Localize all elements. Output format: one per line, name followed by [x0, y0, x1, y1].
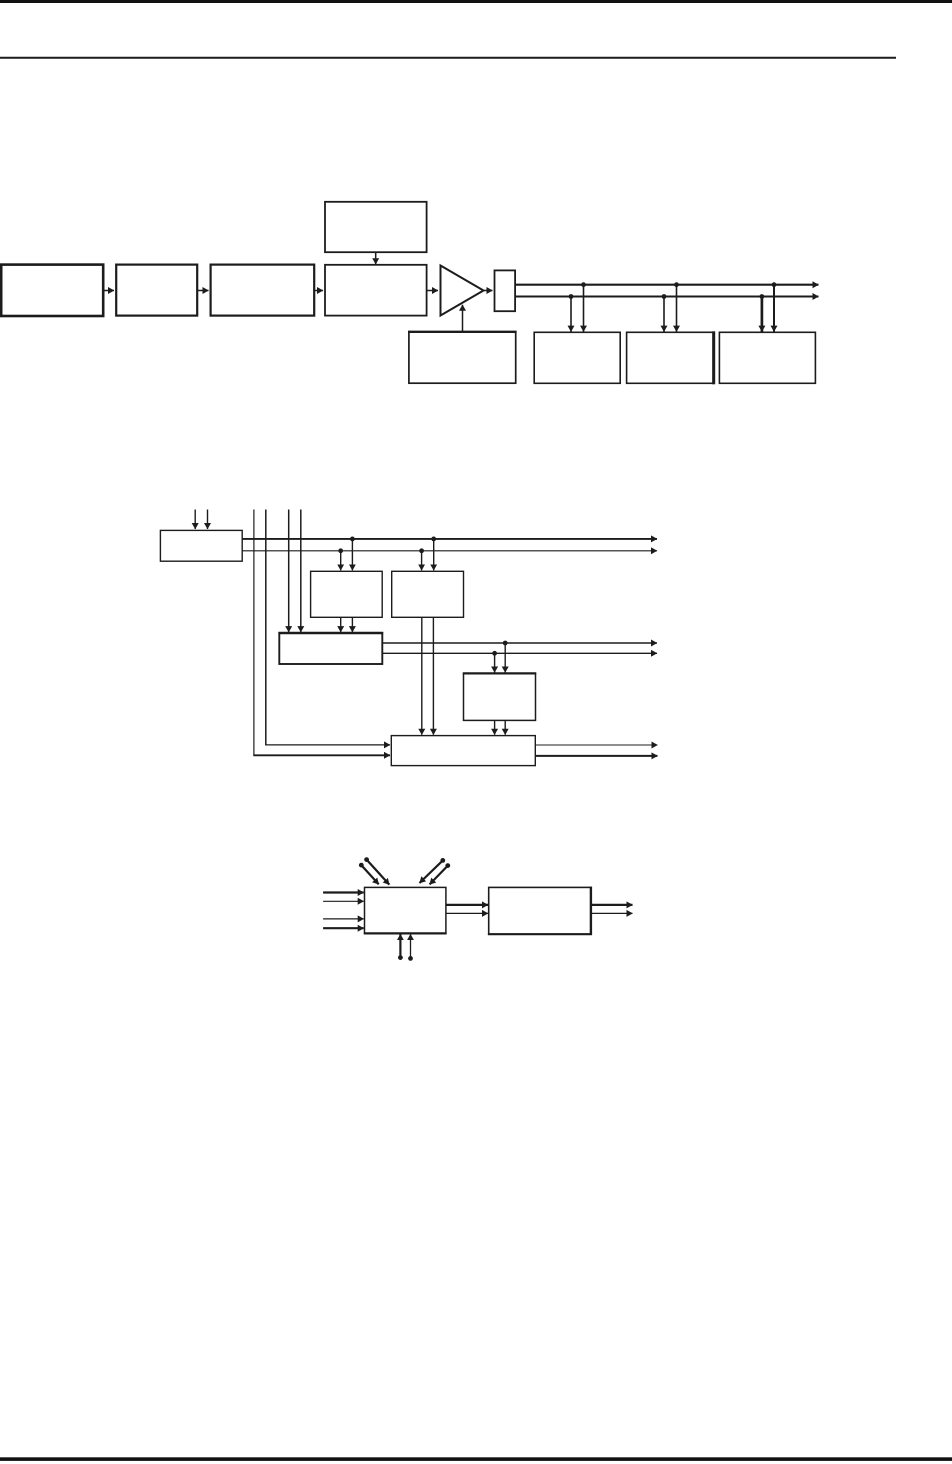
wire B4 to amplifier: [428, 290, 439, 292]
junction on bus bottom at BB: [662, 294, 667, 299]
wire output top (thick): [591, 904, 632, 906]
node pin dot bottom left: [398, 955, 403, 960]
page top bar: [0, 0, 952, 3]
junction on bus top at BC: [772, 282, 777, 287]
block C2: [311, 571, 383, 617]
node pin dot diag left A: [359, 863, 364, 868]
wire bottom up-arrow left into D1 (thick): [399, 934, 401, 957]
wire bus P3 top (from C6): [536, 744, 658, 746]
page bottom bar: [0, 1457, 952, 1461]
wire input 1 into D1 (thick): [323, 891, 364, 893]
block B4 (modulator): [325, 265, 427, 316]
junction P1 top at C3: [431, 537, 436, 542]
block B6 (antenna / output pin): [495, 270, 516, 311]
block BB thick right edge: [712, 331, 715, 384]
op-amp A1 (output amplifier triangle): [441, 266, 484, 316]
junction on bus bottom at BA: [569, 294, 574, 299]
block C5 (small right box): [464, 673, 536, 720]
wire C5 to bottom box right: [504, 721, 506, 735]
wire B2 to B3: [198, 290, 209, 292]
node pin dot diag right A: [440, 858, 445, 863]
wire diag left B into D1: [367, 860, 390, 885]
wire P1 top into C3: [433, 539, 435, 570]
junction P2 bottom at C5: [492, 651, 497, 656]
block D2 (driver): [489, 887, 591, 934]
block D1 thick bottom edge: [364, 932, 447, 934]
wire bus P2 top (from C4): [382, 642, 657, 644]
block C5 thick top edge: [463, 672, 536, 674]
junction P2 top at C5: [503, 641, 508, 646]
wire P1 bottom into C3: [421, 551, 423, 571]
junction P1 top at C2: [350, 537, 355, 542]
wire C5 to bottom box left: [494, 721, 496, 735]
wire B5 to B4: [375, 253, 377, 264]
block B2: [116, 265, 197, 316]
wire C2 to C4 left: [340, 617, 342, 632]
wire V2 horizontal into bottom box: [265, 744, 390, 746]
block C3: [392, 571, 464, 617]
wire bus P1 bottom (from C1): [242, 550, 657, 552]
wire D1 to D2 bottom: [446, 912, 488, 914]
node pin dot bottom right: [408, 956, 413, 961]
block C6 (bottom output box): [391, 736, 535, 766]
wire bus top to block BA: [583, 285, 585, 332]
wire input 1 into block C1: [194, 510, 196, 530]
block BC: [719, 332, 815, 383]
wire vertical V2: [265, 510, 267, 746]
wire amplifier to antenna block: [484, 290, 493, 292]
junction on bus top at BA: [581, 282, 586, 287]
block BB: [627, 332, 714, 383]
header rule: [0, 57, 896, 59]
wire bus P3 bottom (from C6): [536, 755, 658, 757]
wire bus P2 bottom (from C4): [382, 652, 657, 654]
wire V1 horizontal into bottom box: [253, 754, 390, 756]
wire vertical V3 into block C4: [288, 510, 290, 633]
node pin dot diag right B: [445, 863, 450, 868]
block C1 (top-left control box): [160, 530, 242, 561]
block B3: [211, 265, 315, 316]
wire bus bottom to block BB: [663, 297, 665, 332]
wire P2 bottom into C5: [494, 653, 496, 672]
block D2 thick right edge: [590, 887, 592, 935]
wire bus top to block BC: [773, 285, 775, 332]
junction P1 bottom at C3: [419, 548, 424, 553]
wire vertical V1: [253, 510, 255, 756]
wire B3 to B4: [315, 290, 323, 292]
wire bus bottom to block BA: [570, 297, 572, 332]
wire input 3 into D1: [323, 918, 364, 920]
wire bus P1 top (from C1): [242, 538, 657, 540]
wire P1 top into C2: [351, 539, 353, 570]
wire output bottom: [591, 912, 632, 914]
wire vertical V4 into block C4: [300, 510, 302, 633]
wire C2 to C4 right: [351, 617, 353, 632]
block D1 (controller): [365, 887, 446, 933]
wire P1 bottom into C2: [340, 551, 342, 571]
wire input 2 into block C1: [207, 510, 209, 530]
junction on bus bottom at BC: [760, 294, 765, 299]
block C4 thick top edge: [278, 632, 383, 634]
wire input 2 into D1: [323, 900, 364, 902]
wire C3 vertical right to bottom box: [432, 617, 434, 734]
block D2 thick bottom edge: [488, 933, 592, 935]
wire input 4 into D1 (thick): [323, 927, 364, 929]
wire diag right B into D1: [430, 866, 448, 885]
block BA: [534, 332, 620, 383]
wire P2 top into C5: [504, 643, 506, 673]
wire B7 to amplifier (feedback): [462, 305, 464, 332]
wire D1 to D2 top (thick): [446, 904, 488, 906]
block B1 (input stage): [1, 265, 103, 316]
junction on bus top at BB: [674, 282, 679, 287]
block B7 (bias box under amplifier): [409, 332, 516, 383]
wire bus bottom to block BC (thick): [761, 297, 764, 332]
wire bottom up-arrow right into D1: [410, 934, 412, 958]
block B7 thick top edge: [408, 331, 517, 333]
block C4 (middle-left register box): [279, 633, 382, 664]
wire bus top: [516, 284, 819, 286]
block B5 (top reference box): [325, 202, 427, 252]
wire bus top to block BB: [676, 285, 678, 332]
node pin dot diag left B: [364, 857, 369, 862]
wire bus bottom: [516, 295, 819, 297]
wire diag right A into D1: [420, 860, 443, 883]
wire C3 vertical left to bottom box: [421, 617, 423, 734]
wire diag left A into D1: [361, 865, 378, 884]
junction P1 bottom at C2: [338, 548, 343, 553]
wire B1 to B2: [104, 290, 114, 292]
